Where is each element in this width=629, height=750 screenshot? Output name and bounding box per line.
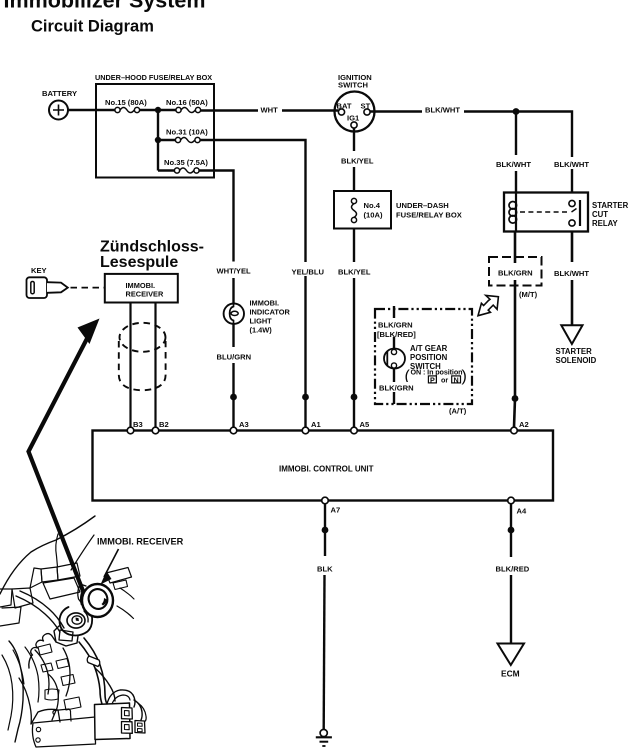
terminal B2: [152, 420, 169, 434]
lock housing below: [54, 626, 78, 646]
terminal B3: [127, 420, 143, 434]
svg-text:No.35 (7.5A): No.35 (7.5A): [164, 158, 208, 167]
svg-text:INDICATOR: INDICATOR: [250, 308, 291, 317]
node BLK/WHT junction: [513, 108, 520, 115]
cable clamp: [87, 656, 100, 667]
node A3 wire dot: [230, 394, 237, 401]
BLK/GRN (M/T) dashed box: [489, 257, 542, 299]
wire BLK/GRN [BLK/RED] through switch: [393, 306, 395, 404]
fuse No.31 (10A): [166, 128, 208, 143]
wire BLK/WHT relay contact to starter solenoid: [554, 232, 589, 326]
bottom bracket: [32, 717, 95, 747]
ground G chassis: [316, 729, 332, 746]
svg-text:BATTERY: BATTERY: [42, 89, 77, 98]
wire BLK/YEL No.4 to A5: [338, 229, 371, 428]
svg-text:(M/T): (M/T): [519, 290, 538, 299]
harness tube upper: [16, 596, 60, 632]
svg-text:STARTER: STARTER: [592, 201, 629, 210]
svg-text:BLK/WHT: BLK/WHT: [554, 269, 589, 278]
svg-text:BLU/GRN: BLU/GRN: [217, 353, 252, 362]
ring left flange: [81, 590, 84, 605]
wire WHT fuse16 to ignition BAT: [201, 106, 339, 115]
panel line small left: [56, 534, 58, 567]
small parts middle: [38, 644, 52, 655]
panel jagged shapes upper: [41, 567, 58, 582]
svg-text:B2: B2: [159, 420, 169, 429]
svg-text:SOLENOID: SOLENOID: [556, 356, 597, 365]
relay dashed actuator line: [520, 211, 568, 213]
svg-text:Zündschloss-: Zündschloss-: [100, 239, 204, 256]
wire receiver B3: [129, 303, 131, 428]
wire receiver B2: [154, 303, 156, 428]
svg-text:KEY: KEY: [31, 266, 47, 275]
relay coil: [509, 193, 517, 232]
svg-text:A7: A7: [331, 506, 341, 515]
A/T gear position switch symbol: [384, 349, 405, 369]
ECM triangle: [498, 644, 525, 679]
under-dash fuse/relay box No.4: [334, 191, 462, 229]
terminal A2: [511, 420, 529, 434]
wire bus vertical: [157, 110, 159, 171]
wire BLK/YEL ignition IG1 to No.4 fuse: [341, 128, 374, 191]
pointer arrow to receiver ring: [101, 549, 119, 585]
svg-text:A4: A4: [517, 507, 527, 516]
svg-text:A2: A2: [519, 420, 529, 429]
svg-text:No.4: No.4: [364, 201, 381, 210]
svg-text:RECEIVER: RECEIVER: [126, 290, 164, 299]
svg-text:STARTER: STARTER: [556, 347, 593, 356]
wire fuse15 to bus: [140, 109, 176, 111]
big arrow illustration to coil: [29, 319, 100, 594]
svg-text:UNDER–HOOD FUSE/RELAY BOX: UNDER–HOOD FUSE/RELAY BOX: [95, 73, 212, 82]
A/T gear position switch dashed box: [375, 309, 472, 404]
wire BLK/WHT to relay coil: [496, 112, 531, 193]
svg-text:UNDER–DASH: UNDER–DASH: [396, 201, 449, 210]
wire BLK/RED A4 to ECM: [496, 504, 530, 643]
receiver ring inner: [86, 586, 110, 611]
panel line beside arrow: [71, 535, 94, 570]
svg-text:B3: B3: [133, 420, 143, 429]
svg-text:No.16 (50A): No.16 (50A): [166, 98, 208, 107]
ignition switch: [335, 73, 375, 132]
fuse No.16 (50A): [166, 98, 208, 113]
battery B1: [42, 89, 77, 120]
svg-text:BLK/YEL: BLK/YEL: [338, 268, 371, 277]
svg-text:Circuit Diagram: Circuit Diagram: [31, 18, 154, 36]
wires into connector: [107, 690, 135, 707]
ring inner notch: [102, 598, 108, 606]
connector block: [95, 703, 131, 740]
svg-text:No.15 (80A): No.15 (80A): [105, 98, 147, 107]
Zuendschloss-Lesespule heading: [100, 239, 204, 272]
node A2 branch junction: [512, 395, 519, 402]
wire battery to fuse box: [68, 109, 115, 111]
main cable right: [84, 638, 107, 704]
svg-text:(A/T): (A/T): [449, 407, 467, 416]
starter solenoid triangle: [556, 325, 597, 365]
wire fuse31 to YEL/BLU corner: [158, 140, 306, 262]
svg-text:A3: A3: [239, 420, 249, 429]
node A7 wire dot: [322, 527, 329, 534]
second cable to connector: [95, 668, 115, 701]
wire BLK A7 to ground: [317, 504, 333, 729]
svg-text:BLK/WHT: BLK/WHT: [425, 106, 460, 115]
svg-text:IMMOBI. RECEIVER: IMMOBI. RECEIVER: [97, 537, 184, 547]
immobilizer indicator light: [224, 299, 291, 335]
label A/T gear position switch: [405, 344, 467, 385]
svg-text:BLK/RED: BLK/RED: [496, 565, 530, 574]
svg-text:Immobilizer System: Immobilizer System: [4, 0, 206, 13]
mounting bracket mid: [43, 578, 80, 599]
terminal A7: [322, 497, 341, 514]
cylinder face rings: [67, 613, 85, 628]
left boot outline: [9, 641, 23, 742]
lower boot shape: [31, 709, 60, 724]
svg-text:Lesespule: Lesespule: [100, 254, 178, 271]
node A5 wire dot: [351, 394, 358, 401]
terminal A3: [230, 420, 249, 434]
wire fuse35 to WHT/YEL corner: [158, 171, 234, 243]
dashboard edge line: [0, 516, 95, 594]
ignition cylinder outer: [60, 607, 93, 636]
svg-text:A/T GEAR: A/T GEAR: [410, 344, 448, 353]
svg-text:LIGHT: LIGHT: [250, 317, 273, 326]
terminal A5: [351, 420, 370, 434]
svg-text:or: or: [441, 376, 448, 385]
svg-text:BLK/GRN: BLK/GRN: [498, 269, 533, 278]
svg-text:BLK/WHT: BLK/WHT: [496, 160, 531, 169]
terminal A4: [508, 497, 527, 515]
wire WHT/YEL to indicator light: [217, 242, 252, 304]
receiver coil dashed cylinder: [119, 323, 166, 391]
label BLK/GRN [BLK/RED]: [377, 318, 416, 339]
illustration: steering column area: [0, 516, 146, 747]
under-hood fuse/relay box: [95, 73, 214, 178]
svg-text:CUT: CUT: [592, 210, 608, 219]
wire BLK/WHT ignition ST to starter cut relay: [370, 106, 572, 193]
svg-text:(10A): (10A): [364, 211, 383, 220]
label BLK/WHT right branch: [552, 157, 590, 169]
svg-text:(1.4W): (1.4W): [250, 326, 273, 335]
wire to A2 terminal: [514, 399, 515, 428]
svg-text:IMMOBI.: IMMOBI.: [250, 299, 280, 308]
svg-text:BLK/GRN: BLK/GRN: [379, 384, 414, 393]
immobilizer control unit: [93, 431, 554, 501]
relay contacts: [569, 200, 580, 226]
svg-text:YEL/BLU: YEL/BLU: [292, 268, 325, 277]
svg-text:BLK: BLK: [317, 565, 333, 574]
svg-text:IMMOBI. CONTROL UNIT: IMMOBI. CONTROL UNIT: [279, 465, 374, 474]
fuse No.4 symbol: [351, 198, 356, 222]
label YEL/BLU: [290, 263, 325, 277]
svg-text:SWITCH: SWITCH: [338, 80, 368, 89]
node A4 wire dot: [508, 527, 515, 534]
wire YEL/BLU to A1: [304, 276, 306, 427]
svg-text:No.31 (10A): No.31 (10A): [166, 128, 208, 137]
svg-text:BLK/WHT: BLK/WHT: [554, 160, 589, 169]
svg-text:POSITION: POSITION: [410, 353, 448, 362]
panel curve right of ring: [117, 606, 134, 619]
svg-text:RELAY: RELAY: [592, 219, 619, 228]
plug piece: [135, 721, 145, 734]
inner column curves: [35, 650, 49, 694]
svg-text:): ): [462, 368, 467, 385]
fuse No.15 (80A): [105, 98, 147, 113]
node bus junction mid: [155, 137, 161, 143]
bracket arm right: [106, 568, 132, 584]
svg-text:[BLK/RED]: [BLK/RED]: [377, 330, 416, 339]
receiver to cylinder link: [84, 611, 88, 622]
wire relay coil to A2: [514, 232, 517, 399]
ribbed harness from cylinder: [31, 634, 52, 655]
small tab: [53, 709, 71, 721]
svg-text:BLK/GRN: BLK/GRN: [378, 321, 413, 330]
svg-text:WHT: WHT: [261, 106, 279, 115]
key symbol: [27, 266, 68, 298]
svg-text:BLK/YEL: BLK/YEL: [341, 157, 374, 166]
node A1 wire dot: [302, 394, 309, 401]
label BLK/GRN lower: [377, 382, 414, 393]
svg-text:FUSE/RELAY BOX: FUSE/RELAY BOX: [396, 211, 462, 220]
starter cut relay: [504, 193, 629, 232]
immobilizer receiver box: [105, 274, 178, 303]
svg-text:A1: A1: [311, 420, 321, 429]
wire BLU/GRN light to A3: [217, 324, 252, 427]
svg-text:BAT: BAT: [337, 102, 352, 111]
svg-text:A5: A5: [360, 420, 370, 429]
connection double arrow (M/T-A/T alternative): [478, 295, 498, 315]
dashed link key to receiver: [71, 287, 105, 289]
svg-text:ECM: ECM: [501, 669, 520, 679]
fuse No.35 (7.5A): [164, 158, 208, 173]
receiver ring outer: [82, 584, 113, 617]
svg-text:WHT/YEL: WHT/YEL: [217, 267, 252, 276]
terminal A1: [302, 420, 321, 434]
node bus junction top: [155, 107, 161, 113]
